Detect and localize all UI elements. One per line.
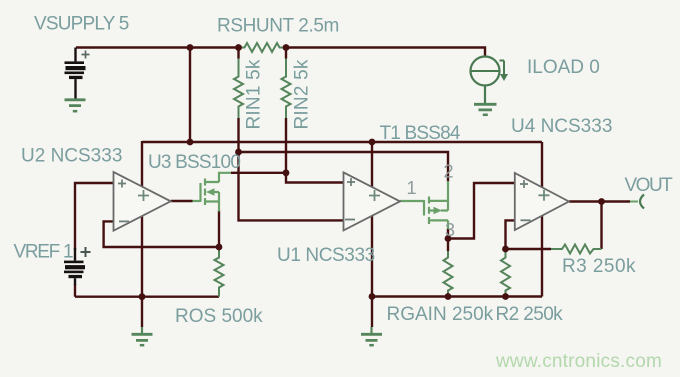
wire node to R3: [506, 248, 552, 250]
transistor T1 BSS84: [424, 181, 448, 229]
svg-text:R3 250k: R3 250k: [562, 256, 636, 277]
wire U1 ground drop: [371, 297, 373, 328]
transistor T1 arrow: [434, 207, 443, 214]
wire RIN2 node to U1 noninverting input: [286, 173, 344, 183]
op-amp U4 NCS333: [515, 173, 569, 230]
svg-text:2: 2: [444, 162, 454, 182]
node dot RGAIN bottom: [445, 293, 452, 300]
node dot ROS top: [216, 244, 223, 251]
svg-text:RSHUNT 2.5m: RSHUNT 2.5m: [217, 16, 339, 37]
wire top rail left segment: [76, 46, 239, 48]
current source ILOAD circle: [471, 57, 500, 86]
wire node RIN1 to T1 pin2 y=152: [239, 152, 449, 182]
terminal VOUT: [630, 201, 638, 203]
node dot R3 output: [598, 198, 605, 205]
plus sign VSUPPLY: [82, 51, 90, 59]
svg-text:RGAIN 250k: RGAIN 250k: [387, 304, 494, 325]
op-amp U1 NCS333: [344, 172, 401, 230]
wire supply rail y=142: [142, 141, 542, 143]
node dot T1 pin3: [445, 235, 452, 242]
current source ILOAD chord: [471, 70, 500, 72]
wire T1 pin3 down to node: [447, 229, 449, 239]
wire bottom-right rail: [372, 295, 542, 297]
resistor RSHUNT 2.5m: [239, 43, 287, 52]
node dot top rail x238.5: [235, 44, 242, 51]
wire tap down at x=190: [189, 48, 191, 143]
transistor U3 arrow: [206, 188, 215, 195]
ground below VREF rail: [141, 327, 143, 333]
wire top rail right segment to ILOAD: [286, 48, 485, 57]
wire U2 supply vertical through opamp: [141, 141, 143, 297]
node dot bottom-left rail: [139, 293, 146, 300]
svg-text:T1 BSS84: T1 BSS84: [380, 123, 461, 144]
battery VREF lead top: [74, 248, 76, 261]
svg-text:U2 NCS333: U2 NCS333: [21, 146, 122, 167]
svg-text:1: 1: [407, 178, 417, 198]
svg-text:ROS 500k: ROS 500k: [175, 306, 263, 327]
svg-text:VSUPPLY 5: VSUPPLY 5: [34, 14, 129, 35]
plus sign VREF: [81, 247, 91, 257]
svg-text:www.cntronics.com: www.cntronics.com: [495, 351, 662, 372]
resistor R2 250k: [501, 249, 510, 297]
battery VSUPPLY lead top: [74, 48, 76, 62]
node dot supply rail x372: [369, 139, 376, 146]
transistor U3 BSS100: [201, 173, 232, 212]
svg-text:VOUT: VOUT: [625, 175, 674, 196]
wire U4 output to VOUT: [569, 200, 630, 202]
svg-text:U1 NCS333: U1 NCS333: [277, 245, 375, 266]
node dot bottom-right rail gnd: [369, 293, 376, 300]
wire U4 inverting feedback loop: [506, 220, 515, 249]
current source ILOAD arrow: [500, 61, 505, 76]
transistor T1 BSS84 gate lead from U1 output: [400, 200, 424, 202]
op-amp U2 NCS333: [114, 172, 171, 231]
node dot RIN1 y152: [235, 149, 242, 156]
ground below ILOAD: [474, 104, 497, 110]
resistor RIN2 5k: [282, 59, 291, 119]
current source ILOAD bottom lead: [484, 86, 486, 104]
svg-text:ILOAD 0: ILOAD 0: [527, 57, 600, 78]
battery VSUPPLY plates: [65, 61, 86, 79]
svg-text:RIN1 5k: RIN1 5k: [244, 59, 265, 129]
wire U4 supply vertical: [541, 142, 543, 297]
ground below U1 rail: [370, 327, 372, 333]
wire U2 ground drop: [141, 297, 143, 327]
svg-text:RIN2 5k: RIN2 5k: [292, 59, 313, 129]
wire bottom-left rail: [75, 284, 219, 297]
wire R3 up to output: [600, 202, 602, 250]
resistor RGAIN 250k: [444, 251, 453, 297]
svg-text:3: 3: [445, 220, 455, 240]
resistor RIN1 5k: [234, 59, 243, 119]
svg-text:U3 BSS100: U3 BSS100: [148, 152, 240, 173]
resistor ROS 500k: [215, 248, 224, 297]
transistor U3 BSS100 gate lead from U2 output: [193, 200, 201, 202]
wire U2 inverting feedback loop: [104, 221, 219, 247]
wire U2 output: [171, 200, 193, 202]
ground below VSUPPLY: [65, 100, 86, 106]
wire RIN1 vertical and to U1 inverting input: [239, 48, 344, 221]
battery VSUPPLY lead bottom: [74, 79, 76, 98]
node dot R2 bottom: [502, 293, 509, 300]
wire U3 source down to node: [218, 211, 220, 248]
wire U1 supply vertical through opamp: [371, 142, 373, 297]
node dot RIN2 y172.8: [283, 169, 290, 176]
node dot R2 top: [502, 246, 509, 253]
wire RIN2 vertical: [285, 48, 287, 173]
wire RGAIN top lead: [447, 239, 449, 252]
svg-text:U4 NCS333: U4 NCS333: [511, 116, 612, 137]
svg-text:R2 250k: R2 250k: [496, 304, 564, 325]
node dot top rail x190: [187, 44, 194, 51]
battery VREF lead bottom: [74, 278, 76, 285]
node dot supply rail x190: [187, 139, 194, 146]
wire U3 drain to RIN2 node: [231, 172, 286, 174]
resistor R3 250k: [551, 245, 602, 254]
battery VREF plates: [64, 261, 85, 279]
node dot top rail x286: [283, 44, 290, 51]
wire T1 node to U4 noninverting input: [448, 183, 515, 239]
wire VREF plus to U2 noninverting input: [75, 183, 114, 250]
svg-text:VREF 1: VREF 1: [14, 242, 73, 263]
